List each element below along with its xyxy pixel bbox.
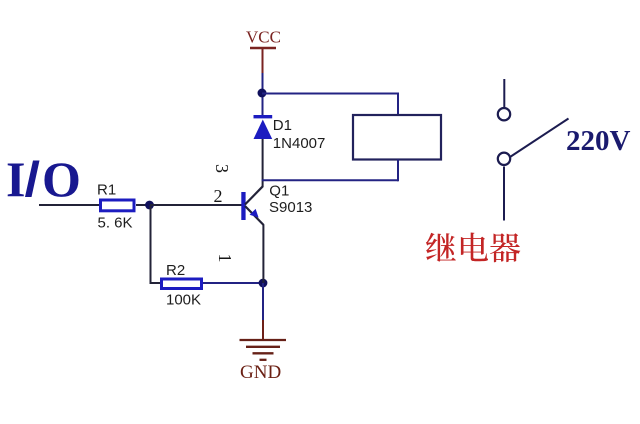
wire node A to transistor base: [150, 204, 242, 206]
wire top rail to relay: [262, 93, 399, 95]
svg-text:VCC: VCC: [246, 28, 281, 47]
svg-text:O: O: [42, 151, 81, 207]
svg-text:GND: GND: [240, 362, 281, 383]
svg-text:2: 2: [214, 186, 223, 206]
switch top contact circle: [498, 108, 510, 120]
svg-text:100K: 100K: [166, 292, 201, 309]
switch bottom contact circle: [498, 153, 510, 165]
wire diode cathode to collector node: [262, 139, 264, 187]
wire VCC to node VCC: [262, 73, 264, 116]
svg-text:I: I: [6, 151, 25, 207]
node VCC junction dot: [258, 89, 267, 98]
diode D1: [254, 115, 326, 152]
wire node A down to R2: [151, 205, 162, 283]
svg-text:1: 1: [215, 254, 235, 263]
wire node B to ground: [262, 283, 264, 339]
transistor Q1: [241, 183, 312, 226]
wire R2 to node B: [203, 282, 263, 284]
node A junction dot: [145, 201, 154, 210]
svg-text:Q1: Q1: [269, 183, 289, 200]
svg-text:D1: D1: [273, 117, 292, 134]
svg-text:5. 6K: 5. 6K: [98, 215, 133, 232]
svg-text:S9013: S9013: [269, 199, 312, 216]
svg-text:R1: R1: [97, 182, 116, 199]
node B junction dot: [259, 279, 268, 288]
wire input from I/O to R1: [39, 204, 100, 206]
wire bottom rail relay to collector: [262, 179, 398, 181]
svg-text:3: 3: [212, 164, 232, 173]
switch bottom terminal wire: [503, 167, 505, 221]
switch top terminal wire: [503, 79, 505, 108]
I/O input label: [6, 151, 81, 207]
svg-text:R2: R2: [166, 262, 185, 279]
relay name label 继电器: [426, 233, 520, 263]
resistor R1: [97, 182, 134, 232]
svg-text:220V: 220V: [566, 125, 631, 157]
svg-text:1N4007: 1N4007: [273, 135, 326, 152]
VCC power symbol: [246, 28, 281, 74]
switch blade: [510, 119, 569, 158]
resistor R2: [162, 262, 202, 309]
ground symbol: [240, 340, 287, 383]
wire emitter down to node B: [262, 225, 264, 284]
wire R1 to node A: [136, 204, 150, 206]
relay coil: [353, 94, 441, 182]
